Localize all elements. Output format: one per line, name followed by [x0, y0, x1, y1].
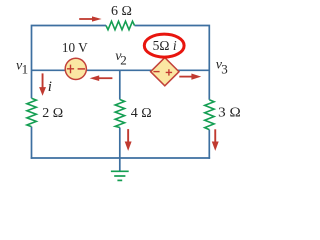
wire: right lower — [208, 130, 210, 159]
red ellipse highlight around 5ohm i — [144, 34, 184, 57]
wire: middle branch lower — [119, 128, 121, 159]
arrow i downward under v1 — [39, 73, 46, 95]
wire: left+top rail — [32, 26, 107, 99]
arrow left of v2 pointing left — [90, 75, 113, 81]
arrow down next to 3ohm — [212, 129, 219, 151]
resistor 6ohm zigzag — [106, 21, 135, 30]
svg-text:3: 3 — [221, 61, 228, 76]
minus sign in diamond — [153, 71, 159, 73]
arrow down next to 4ohm — [125, 129, 132, 151]
voltage source 10V circle — [65, 58, 86, 79]
resistor 2ohm zigzag — [27, 98, 36, 126]
wire: left lower — [31, 127, 33, 159]
wire: bottom rail — [31, 157, 210, 159]
resistor 3ohm zigzag — [205, 100, 214, 130]
svg-text:5Ω i: 5Ω i — [153, 39, 177, 54]
svg-text:2: 2 — [120, 53, 127, 68]
svg-text:1: 1 — [22, 62, 29, 77]
svg-text:6 Ω: 6 Ω — [111, 4, 132, 19]
wire: middle rail v1-v2-v3 — [32, 69, 210, 71]
ground — [111, 170, 129, 172]
svg-text:4 Ω: 4 Ω — [131, 106, 152, 121]
dependent source diamond — [151, 58, 179, 86]
arrow right of diamond pointing right — [179, 74, 201, 80]
wire: ground stub — [119, 158, 121, 171]
wire: middle branch upper — [119, 70, 121, 99]
resistor 4ohm zigzag — [115, 100, 124, 128]
plus sign in circle — [67, 65, 74, 74]
plus sign in diamond — [166, 69, 172, 75]
svg-text:3 Ω: 3 Ω — [218, 106, 241, 121]
svg-text:2 Ω: 2 Ω — [42, 106, 63, 121]
svg-text:10 V: 10 V — [62, 41, 88, 56]
arrow top current — [79, 16, 101, 21]
wire: top rail right of 6ohm + right drop — [135, 26, 210, 100]
minus sign in circle — [78, 68, 85, 70]
svg-text:i: i — [48, 79, 52, 95]
